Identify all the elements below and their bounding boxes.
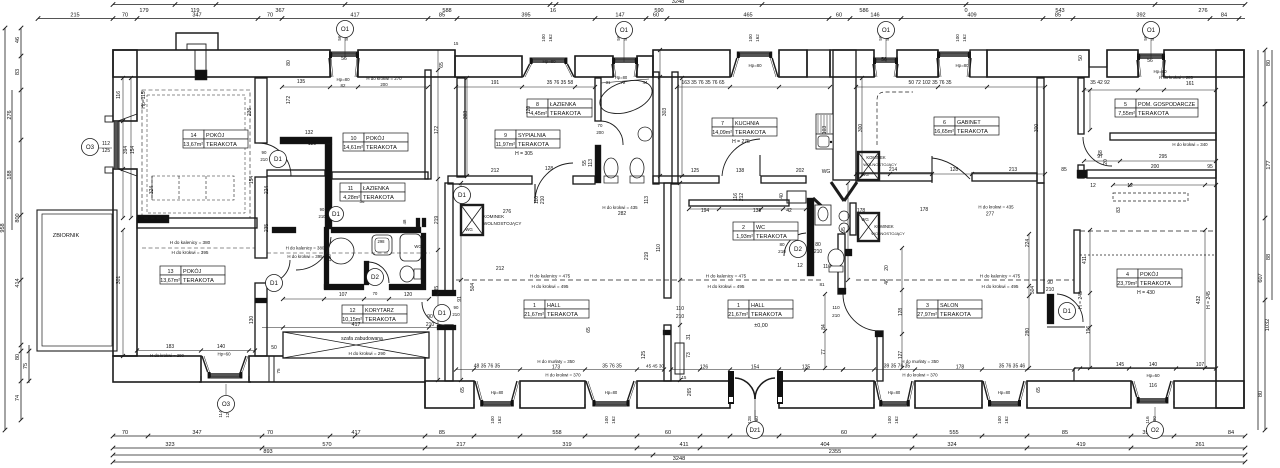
dimension lines left column [4, 28, 6, 430]
svg-text:65: 65 [439, 62, 445, 68]
svg-text:214: 214 [889, 167, 898, 173]
svg-text:219: 219 [644, 252, 650, 261]
svg-text:103: 103 [822, 126, 828, 135]
outer wall south band main [425, 381, 474, 408]
kominek hall1 [461, 205, 483, 235]
wall sypialnia/bath8 [595, 78, 601, 121]
door salon [843, 294, 880, 331]
room label 12 KORYTARZ [342, 305, 407, 323]
svg-text:210: 210 [452, 312, 460, 317]
svg-text:TERAKOTA: TERAKOTA [550, 111, 581, 117]
svg-text:110: 110 [656, 244, 662, 252]
svg-text:H = 245: H = 245 [1206, 291, 1212, 309]
svg-text:417: 417 [352, 322, 361, 328]
svg-text:130: 130 [249, 316, 255, 325]
svg-text:85: 85 [439, 13, 445, 19]
door room 14 (D1) [258, 143, 291, 176]
svg-text:555: 555 [949, 430, 958, 436]
svg-text:KUCHNIA: KUCHNIA [735, 121, 760, 127]
svg-text:282: 282 [618, 211, 627, 217]
dimension line top row B [38, 18, 1245, 20]
svg-text:277: 277 [986, 212, 995, 218]
dimension line top row A (3248) [113, 4, 1245, 6]
svg-text:KOMINEK: KOMINEK [874, 224, 894, 229]
svg-text:154: 154 [249, 176, 255, 185]
svg-text:16: 16 [550, 8, 556, 14]
outer wall south band left block [113, 356, 201, 382]
door wc (D2) [784, 233, 806, 256]
svg-text:112: 112 [102, 141, 110, 147]
hall divider wall [664, 183, 671, 298]
svg-text:45 45 30: 45 45 30 [646, 364, 664, 369]
svg-text:D1: D1 [458, 192, 466, 199]
window hall south 1 [474, 381, 520, 408]
svg-text:77: 77 [821, 349, 827, 355]
svg-text:H do krokwi = 495: H do krokwi = 495 [532, 284, 569, 289]
svg-text:212: 212 [491, 168, 500, 174]
svg-text:44: 44 [643, 80, 648, 85]
svg-text:84: 84 [821, 324, 827, 330]
svg-text:301: 301 [116, 276, 122, 285]
wall right section mid [1087, 170, 1216, 178]
svg-text:2: 2 [742, 225, 745, 231]
svg-text:504: 504 [470, 283, 476, 292]
symbol O1 top 2 [623, 39, 625, 62]
bath11 fixtures [328, 238, 354, 264]
svg-text:210: 210 [1046, 287, 1055, 293]
svg-text:HALL: HALL [751, 303, 765, 309]
svg-text:O1: O1 [882, 27, 891, 34]
dashed line through bath11 [267, 252, 430, 254]
svg-text:140: 140 [217, 344, 226, 350]
svg-text:48 35 76 35: 48 35 76 35 [474, 364, 501, 370]
window bath top [612, 56, 638, 77]
svg-text:8: 8 [536, 102, 539, 108]
svg-text:21,67m²: 21,67m² [524, 312, 544, 318]
svg-text:Dz1: Dz1 [749, 427, 761, 434]
svg-text:85: 85 [1061, 167, 1067, 173]
svg-text:7,55m²: 7,55m² [1118, 111, 1135, 117]
kitchen counter [816, 114, 833, 149]
svg-text:Hp=115: Hp=115 [141, 91, 147, 109]
symbol D1 room13 [266, 275, 283, 292]
svg-text:14,09m²: 14,09m² [712, 130, 732, 136]
kominek box right 1 [858, 152, 879, 180]
svg-text:11,97m²: 11,97m² [496, 142, 516, 148]
room4 floor edge [1074, 367, 1216, 369]
svg-text:210: 210 [426, 322, 435, 328]
svg-text:12: 12 [350, 308, 356, 314]
szafa zabudowana wardrobe [283, 332, 429, 358]
svg-text:H do kalenicy = 380: H do kalenicy = 380 [170, 240, 211, 245]
svg-text:191: 191 [491, 80, 500, 86]
svg-text:100: 100 [604, 416, 609, 424]
symbol D1 room4 [1059, 303, 1076, 320]
svg-text:12: 12 [797, 263, 803, 269]
svg-text:80: 80 [1266, 60, 1272, 66]
svg-text:H = 275: H = 275 [732, 139, 750, 145]
svg-text:3: 3 [926, 303, 929, 309]
outer wall west band [113, 50, 137, 121]
svg-text:100: 100 [997, 416, 1002, 424]
svg-text:H = 305: H = 305 [515, 151, 533, 157]
svg-text:31: 31 [686, 334, 692, 340]
pom gosp dashed recess [1113, 193, 1188, 201]
svg-text:POKÓJ: POKÓJ [366, 135, 385, 142]
symbol O1 top 4 [1150, 39, 1152, 58]
svg-text:319: 319 [562, 442, 571, 448]
zbiornik tank [37, 210, 117, 351]
svg-text:4,28m²: 4,28m² [343, 195, 360, 201]
svg-text:ZBIORNIK: ZBIORNIK [53, 233, 80, 239]
wall right section step [1078, 165, 1084, 178]
symbol Dz1 [754, 410, 756, 421]
hall divider black end [663, 330, 671, 335]
svg-text:303: 303 [463, 111, 469, 120]
svg-text:15: 15 [454, 41, 459, 46]
svg-text:162: 162 [497, 416, 502, 424]
svg-text:SYPIALNIA: SYPIALNIA [518, 133, 546, 139]
salon east wall / corridor [1037, 183, 1044, 293]
svg-text:419: 419 [1076, 442, 1085, 448]
dimension lines right column [1257, 50, 1259, 430]
svg-text:O1: O1 [341, 26, 350, 33]
corridor dim line [262, 327, 440, 329]
svg-text:161: 161 [1186, 81, 1195, 87]
svg-text:417: 417 [350, 13, 359, 19]
svg-text:140: 140 [1149, 362, 1158, 368]
svg-text:80: 80 [779, 242, 785, 247]
svg-text:100: 100 [490, 416, 495, 424]
svg-text:210: 210 [260, 157, 268, 162]
closet wall band [267, 170, 325, 176]
svg-text:szafa zabudowana: szafa zabudowana [341, 336, 383, 342]
room4 west wall [1074, 230, 1080, 293]
svg-text:213: 213 [1009, 167, 1018, 173]
svg-text:TERAKOTA: TERAKOTA [1140, 281, 1171, 287]
svg-text:14: 14 [191, 133, 197, 139]
interior wall rooms 14/13 divider [137, 218, 257, 228]
svg-text:TERAKOTA: TERAKOTA [1138, 111, 1169, 117]
svg-text:145: 145 [1116, 362, 1125, 368]
salon west wall [877, 331, 883, 381]
symbol O2 [1154, 407, 1156, 421]
symbol D1 room14 [270, 151, 287, 168]
svg-text:116: 116 [116, 91, 122, 99]
svg-text:465: 465 [743, 13, 752, 19]
svg-text:90: 90 [454, 305, 459, 310]
svg-text:120: 120 [308, 141, 317, 147]
svg-text:ŁAZIENKA: ŁAZIENKA [363, 186, 389, 192]
svg-text:1032: 1032 [1265, 319, 1271, 331]
svg-text:146: 146 [870, 13, 879, 19]
svg-text:TERAKOTA: TERAKOTA [365, 317, 396, 323]
svg-text:50: 50 [1078, 55, 1084, 61]
svg-text:Hp=80: Hp=80 [605, 390, 618, 395]
svg-text:4,45m²: 4,45m² [530, 111, 547, 117]
room label 6 GABINET [934, 117, 999, 135]
svg-text:65: 65 [586, 327, 592, 333]
svg-text:13,67m²: 13,67m² [183, 142, 203, 148]
svg-text:570: 570 [322, 442, 331, 448]
svg-text:85: 85 [1062, 430, 1068, 436]
svg-text:3248: 3248 [673, 456, 685, 462]
svg-text:15: 15 [682, 375, 687, 380]
door kitchen [759, 155, 761, 176]
svg-text:113: 113 [588, 159, 594, 167]
svg-text:Hp=80: Hp=80 [542, 59, 556, 64]
svg-text:31: 31 [606, 80, 611, 85]
svg-text:60: 60 [841, 430, 847, 436]
svg-text:303: 303 [662, 108, 668, 117]
pom gospodarcze south wall [1110, 133, 1216, 140]
svg-text:Hp=80: Hp=80 [998, 390, 1011, 395]
svg-text:276: 276 [1198, 8, 1207, 14]
svg-text:35 76 35 46: 35 76 35 46 [999, 364, 1026, 370]
svg-text:85: 85 [439, 430, 445, 436]
svg-text:147: 147 [615, 13, 624, 19]
room14 dashed roof outline [142, 90, 250, 218]
svg-text:HALL: HALL [547, 303, 561, 309]
svg-text:162: 162 [611, 416, 616, 424]
svg-text:100: 100 [887, 416, 892, 424]
svg-text:116: 116 [1149, 383, 1157, 389]
svg-text:68: 68 [1098, 150, 1104, 156]
svg-text:300: 300 [858, 124, 864, 133]
svg-text:7: 7 [721, 121, 724, 127]
svg-text:5: 5 [1124, 102, 1127, 108]
svg-text:80: 80 [815, 242, 821, 248]
svg-text:H do krokwi = 495: H do krokwi = 495 [982, 284, 1019, 289]
svg-text:224: 224 [1025, 239, 1031, 248]
window O3 south-left [201, 356, 249, 380]
svg-text:WG: WG [414, 244, 421, 249]
svg-text:80: 80 [286, 60, 292, 66]
svg-text:235: 235 [264, 224, 270, 233]
symbol O3 south [225, 384, 227, 395]
svg-text:110: 110 [823, 264, 831, 270]
sypialnia west wall [457, 78, 465, 177]
svg-text:411: 411 [680, 442, 689, 448]
svg-text:D1: D1 [274, 156, 282, 163]
svg-text:188: 188 [7, 170, 13, 179]
svg-text:POKÓJ: POKÓJ [1140, 271, 1159, 278]
interior wall room10 south / closet [332, 172, 428, 179]
svg-text:212: 212 [739, 193, 745, 202]
corridor top dim row [283, 298, 429, 300]
svg-text:H do kalenicy = 475: H do kalenicy = 475 [980, 274, 1021, 279]
svg-text:35 76 35: 35 76 35 [602, 364, 622, 370]
symbol D2 bath11 [367, 269, 384, 286]
svg-text:83: 83 [1116, 207, 1122, 213]
svg-text:504: 504 [1030, 286, 1036, 295]
svg-text:110: 110 [832, 305, 840, 310]
svg-text:KORYTARZ: KORYTARZ [365, 308, 395, 314]
svg-text:O2: O2 [1151, 427, 1160, 434]
svg-text:800: 800 [15, 213, 21, 222]
svg-text:70: 70 [122, 13, 128, 19]
svg-text:H = 245: H = 245 [1078, 291, 1084, 309]
main entrance door Dz1 [728, 371, 783, 420]
svg-text:196: 196 [1086, 326, 1092, 335]
svg-text:3248: 3248 [672, 0, 684, 5]
svg-text:60: 60 [836, 13, 842, 19]
svg-text:183: 183 [166, 344, 175, 350]
svg-text:H do murłaty = 350: H do murłaty = 350 [537, 359, 575, 364]
svg-text:100: 100 [955, 34, 960, 42]
symbol D2 wc [790, 241, 807, 258]
wc fixtures [815, 205, 849, 272]
symbol O3 west [82, 139, 99, 156]
svg-text:586: 586 [859, 8, 868, 14]
svg-text:H do krokwi = 270: H do krokwi = 270 [366, 76, 402, 81]
svg-text:177: 177 [1266, 160, 1272, 169]
svg-text:1: 1 [737, 303, 740, 309]
svg-text:91: 91 [457, 296, 463, 302]
top wall recess B [1089, 50, 1107, 67]
svg-text:H = 430: H = 430 [1137, 290, 1155, 296]
room label 4 POKOJ [1117, 269, 1182, 287]
svg-text:162: 162 [962, 34, 967, 42]
svg-text:215: 215 [70, 13, 79, 19]
dimension lines bottom rows [113, 435, 1245, 437]
svg-text:12: 12 [1127, 183, 1133, 189]
interior dimension lines with ticks [282, 86, 428, 88]
svg-text:88: 88 [1266, 254, 1272, 260]
svg-text:H do krokwi = 285: H do krokwi = 285 [1159, 75, 1193, 80]
svg-text:409: 409 [967, 13, 976, 19]
svg-text:Hp=60: Hp=60 [1146, 373, 1160, 378]
svg-text:TERAKOTA: TERAKOTA [183, 278, 214, 284]
svg-text:298: 298 [378, 239, 386, 244]
svg-text:210: 210 [814, 249, 823, 255]
svg-text:417: 417 [351, 430, 360, 436]
svg-text:125: 125 [691, 168, 700, 174]
svg-text:13,67m²: 13,67m² [160, 278, 180, 284]
svg-text:200: 200 [380, 82, 388, 87]
svg-text:39 35 76 35: 39 35 76 35 [884, 364, 911, 370]
hall west wall [445, 183, 453, 295]
svg-text:65: 65 [460, 387, 466, 393]
svg-text:210: 210 [832, 313, 840, 318]
svg-text:GABINET: GABINET [957, 120, 981, 126]
central sanitary block walls [850, 203, 856, 235]
svg-text:46: 46 [884, 279, 890, 285]
svg-text:TERAKOTA: TERAKOTA [751, 312, 782, 318]
svg-text:Hp=80: Hp=80 [955, 63, 969, 68]
svg-text:Hp=80: Hp=80 [1153, 69, 1167, 74]
svg-text:O1: O1 [620, 27, 629, 34]
svg-text:POKÓJ: POKÓJ [206, 132, 225, 139]
svg-text:404: 404 [820, 442, 829, 448]
door bath8 [601, 121, 623, 145]
svg-text:394: 394 [123, 146, 129, 155]
svg-text:81: 81 [819, 282, 825, 287]
room label 7 KUCHNIA [712, 118, 777, 136]
hall north wall west part [448, 176, 532, 184]
svg-text:414: 414 [15, 278, 21, 287]
svg-text:60: 60 [653, 13, 659, 19]
room label 3 SALON [917, 300, 982, 318]
svg-text:90: 90 [427, 314, 433, 320]
svg-text:162: 162 [894, 416, 899, 424]
svg-text:TERAKOTA: TERAKOTA [735, 130, 766, 136]
svg-text:367: 367 [275, 8, 284, 14]
window salon south 1 [982, 381, 1027, 408]
bath11 door bottom (D2) [364, 261, 369, 285]
svg-text:128: 128 [950, 167, 959, 173]
svg-text:72: 72 [621, 80, 626, 85]
svg-text:O3: O3 [86, 144, 95, 151]
bath11 black walls [324, 227, 329, 289]
svg-text:D2: D2 [371, 274, 379, 281]
svg-text:200: 200 [1151, 164, 1160, 170]
svg-text:O1: O1 [1147, 27, 1156, 34]
svg-text:20: 20 [884, 265, 890, 271]
svg-text:120: 120 [404, 292, 413, 298]
svg-text:125: 125 [102, 148, 111, 154]
svg-text:TERAKOTA: TERAKOTA [756, 234, 787, 240]
room4 dashed ceiling line [1080, 230, 1216, 232]
svg-text:607: 607 [1258, 273, 1264, 282]
svg-text:1,93m²: 1,93m² [736, 234, 753, 240]
svg-text:90: 90 [262, 150, 267, 155]
svg-text:116: 116 [1145, 416, 1150, 424]
svg-text:70: 70 [598, 123, 603, 128]
svg-text:2355: 2355 [829, 449, 841, 455]
chimney [176, 33, 218, 50]
svg-text:125: 125 [641, 351, 647, 360]
kitchen south wall [653, 176, 719, 183]
svg-text:11: 11 [348, 186, 354, 192]
svg-text:TERAKOTA: TERAKOTA [206, 142, 237, 148]
svg-text:H do krokwi = 495: H do krokwi = 495 [708, 284, 745, 289]
svg-text:35 42 92: 35 42 92 [1090, 80, 1110, 86]
svg-text:Hp=80: Hp=80 [888, 390, 901, 395]
interior wall left block east [255, 78, 267, 143]
svg-text:POKÓJ: POKÓJ [183, 268, 202, 275]
svg-text:WOLNOSTOJĄCY: WOLNOSTOJĄCY [483, 221, 521, 226]
svg-text:Hp=80: Hp=80 [491, 390, 504, 395]
door corridor-hall (D1) [422, 302, 445, 325]
svg-text:558: 558 [552, 430, 561, 436]
svg-text:H do krokwi = 395: H do krokwi = 395 [287, 254, 323, 259]
symbol O1 top 1 [344, 38, 346, 58]
svg-text:107: 107 [1196, 362, 1205, 368]
window O1 top 1 [522, 56, 575, 77]
svg-text:WC: WC [756, 225, 765, 231]
svg-text:132: 132 [305, 130, 314, 136]
svg-text:347: 347 [192, 13, 201, 19]
bath11 door top [296, 237, 331, 270]
svg-text:27,97m²: 27,97m² [917, 312, 937, 318]
interior vertical dim lines [466, 78, 468, 176]
svg-text:H do krokwi = 435: H do krokwi = 435 [602, 205, 638, 210]
window west wall [105, 114, 137, 176]
svg-text:H do krokwi = 370: H do krokwi = 370 [545, 373, 581, 378]
step in south wall [424, 382, 426, 408]
svg-text:120: 120 [526, 106, 532, 115]
room10 east wall [425, 70, 431, 179]
svg-text:100: 100 [541, 34, 546, 42]
svg-text:TERAKOTA: TERAKOTA [940, 312, 971, 318]
outer wall east band [1216, 50, 1244, 408]
outer wall top band [113, 50, 330, 77]
svg-text:70: 70 [267, 430, 273, 436]
gabinet east wall [1037, 78, 1044, 183]
svg-text:347: 347 [192, 430, 201, 436]
svg-text:162: 162 [548, 34, 553, 42]
